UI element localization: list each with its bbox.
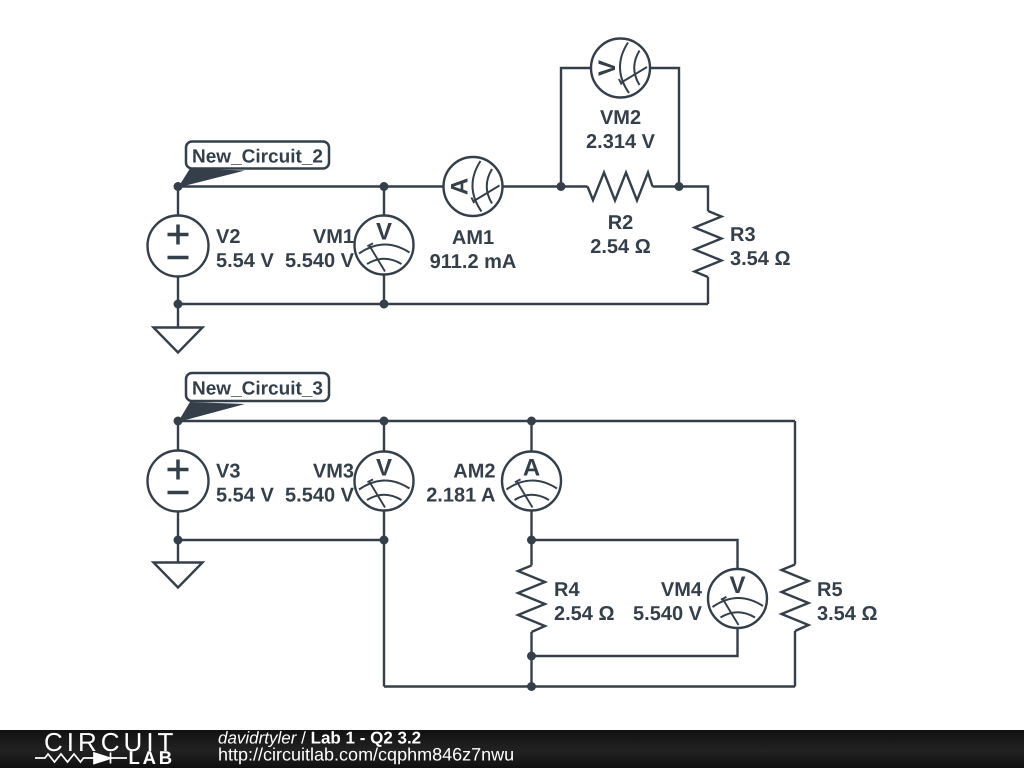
wire node C to R3 top [679, 187, 708, 212]
label V2 value [216, 226, 274, 272]
svg-text:R2: R2 [608, 212, 634, 234]
voltmeter VM4 [708, 569, 767, 628]
wire VM2 right branch [650, 68, 679, 187]
wire R4 top lead [530, 540, 532, 566]
label VM3 value [285, 461, 355, 507]
node R4 bottom junction [527, 652, 536, 661]
svg-text:R4: R4 [554, 579, 580, 601]
wire VM2 left branch [561, 68, 591, 187]
svg-text:2.314 V: 2.314 V [586, 131, 656, 153]
wire VM4 bottom loop [532, 628, 738, 656]
node VM1 bottom junction [380, 300, 389, 309]
wire VM1 bottom lead [383, 275, 385, 304]
resistor R4 zigzag [518, 566, 545, 633]
node V3 bottom junction [174, 536, 183, 545]
ground GND2 [154, 328, 203, 353]
svg-text:V2: V2 [216, 226, 240, 248]
wire V2 bottom lead [177, 276, 179, 304]
node B R2 left junction [557, 182, 566, 191]
ammeter AM1 [444, 157, 503, 216]
wire ground lead circuit 2 [177, 304, 179, 328]
svg-text:2.181 A: 2.181 A [426, 485, 495, 507]
svg-text:911.2 mA: 911.2 mA [430, 251, 517, 273]
label VM2 value [586, 107, 656, 153]
svg-text:A: A [523, 455, 540, 482]
wire VM3 top lead [383, 421, 385, 452]
svg-text:AM1: AM1 [452, 227, 494, 249]
node V2 bottom junction [174, 300, 183, 309]
svg-text:http://circuitlab.com/cqphm846: http://circuitlab.com/cqphm846z7nwu [218, 745, 514, 765]
svg-text:R5: R5 [817, 579, 843, 601]
svg-text:V3: V3 [216, 461, 240, 483]
node VM3 top junction [380, 417, 389, 426]
svg-text:VM2: VM2 [600, 107, 641, 129]
wire V3 top lead [177, 421, 179, 451]
label New_Circuit_3 pointer [178, 402, 245, 422]
logo resistor-diode glyph [35, 753, 127, 764]
svg-text:2.54 Ω: 2.54 Ω [590, 236, 651, 258]
node VM3 bottom junction [380, 536, 389, 545]
node C R2 right junction [675, 182, 684, 191]
node top-left circuit 3 [174, 417, 183, 426]
voltage source V2 [148, 216, 209, 277]
wire VM4 top loop [532, 540, 738, 569]
node AM2 bottom junction [527, 536, 536, 545]
ammeter AM2 [502, 452, 561, 511]
svg-text:AM2: AM2 [453, 461, 495, 483]
wire VM3 down to bottom rail [383, 540, 385, 687]
label R5 value [817, 579, 878, 625]
svg-text:5.540 V: 5.540 V [285, 250, 355, 272]
svg-text:V: V [729, 572, 745, 599]
node R4 rail junction [527, 682, 536, 691]
label New_Circuit_2 pointer [178, 169, 245, 188]
wire ground lead circuit 3 [177, 540, 179, 563]
wire V3 bottom lead [177, 511, 179, 540]
node AM2 top junction [527, 417, 536, 426]
wire bottom rail circuit 2 [178, 303, 708, 305]
label V3 value [216, 461, 274, 507]
svg-text:VM4: VM4 [661, 579, 703, 601]
wire V3 to VM3 bottom rail [178, 539, 384, 541]
svg-text:VM3: VM3 [313, 461, 354, 483]
svg-text:A: A [447, 178, 474, 195]
svg-text:3.54 Ω: 3.54 Ω [817, 603, 878, 625]
wire R4 bottom lead [530, 632, 532, 687]
svg-text:5.540 V: 5.540 V [633, 603, 703, 625]
svg-text:V: V [376, 455, 392, 482]
wire R5 top lead [794, 421, 796, 565]
resistor R5 zigzag [782, 565, 809, 632]
wire AM2 top lead [530, 421, 532, 452]
label R4 value [554, 579, 615, 625]
ground GND3 [154, 563, 203, 588]
label AM2 value [426, 461, 495, 507]
label VM4 value [633, 579, 703, 625]
wire VM1 top lead [383, 187, 385, 217]
wire top rail left (node A to AM1) [178, 185, 444, 187]
label R2 value [590, 212, 651, 258]
svg-text:V: V [376, 219, 392, 246]
node A top-left circuit 2 [174, 182, 183, 191]
wire AM1 right lead to node B [503, 185, 588, 187]
svg-text:R3: R3 [730, 224, 756, 246]
voltmeter VM2 [591, 39, 650, 98]
voltmeter VM3 [355, 452, 414, 511]
resistor R3 zigzag [695, 211, 722, 277]
voltmeter VM1 [355, 216, 414, 275]
wire AM2 bottom lead [530, 511, 532, 541]
wire top rail circuit 3 [178, 420, 795, 422]
svg-text:LAB: LAB [129, 747, 175, 768]
wire V2 top lead [177, 187, 179, 217]
svg-text:VM1: VM1 [313, 226, 354, 248]
svg-text:New_Circuit_3: New_Circuit_3 [192, 379, 323, 400]
svg-text:5.54 V: 5.54 V [216, 250, 274, 272]
svg-text:2.54 Ω: 2.54 Ω [554, 603, 615, 625]
wire R2 right lead to node C [653, 185, 680, 187]
footer bar [0, 730, 1024, 768]
svg-text:New_Circuit_2: New_Circuit_2 [192, 147, 323, 168]
label New_Circuit_3 box [186, 373, 329, 401]
voltage source V3 [148, 451, 209, 512]
label R3 value [730, 224, 791, 270]
node VM1 top junction [380, 182, 389, 191]
wire bottom rail circuit 3 [384, 685, 795, 687]
svg-text:5.540 V: 5.540 V [285, 485, 355, 507]
wire R3 bottom lead [707, 277, 709, 304]
resistor R2 zigzag [588, 173, 653, 201]
label VM1 value [285, 226, 355, 272]
svg-text:3.54 Ω: 3.54 Ω [730, 248, 791, 270]
wire R5 bottom lead [794, 631, 796, 687]
label AM1 value [430, 227, 517, 273]
svg-text:5.54 V: 5.54 V [216, 485, 274, 507]
label New_Circuit_2 box [186, 142, 329, 169]
wire VM3 bottom lead [383, 511, 385, 541]
svg-text:V: V [594, 60, 621, 76]
